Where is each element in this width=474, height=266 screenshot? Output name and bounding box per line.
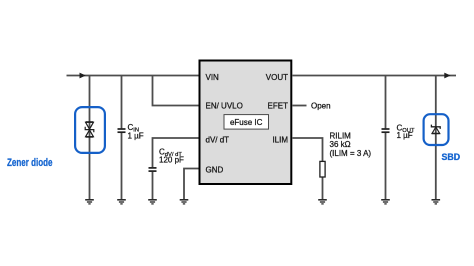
svg-text:Open: Open bbox=[311, 102, 331, 111]
svg-text:EFET: EFET bbox=[268, 101, 289, 110]
svg-text:(ILIM = 3 A): (ILIM = 3 A) bbox=[330, 149, 372, 158]
svg-text:ILIM: ILIM bbox=[272, 135, 288, 144]
svg-text:EN/ UVLO: EN/ UVLO bbox=[206, 101, 243, 110]
svg-text:36 kΩ: 36 kΩ bbox=[330, 140, 351, 149]
svg-text:dV/ dT: dV/ dT bbox=[206, 135, 230, 144]
svg-text:1 µF: 1 µF bbox=[128, 131, 144, 140]
svg-text:SBD: SBD bbox=[442, 152, 461, 162]
svg-text:VOUT: VOUT bbox=[266, 73, 288, 82]
svg-text:VIN: VIN bbox=[206, 73, 220, 82]
svg-text:1 µF: 1 µF bbox=[397, 131, 413, 140]
svg-text:Zener diode: Zener diode bbox=[7, 157, 53, 169]
svg-text:eFuse IC: eFuse IC bbox=[230, 118, 263, 127]
svg-text:120 pF: 120 pF bbox=[159, 155, 184, 164]
svg-text:GND: GND bbox=[206, 165, 224, 174]
